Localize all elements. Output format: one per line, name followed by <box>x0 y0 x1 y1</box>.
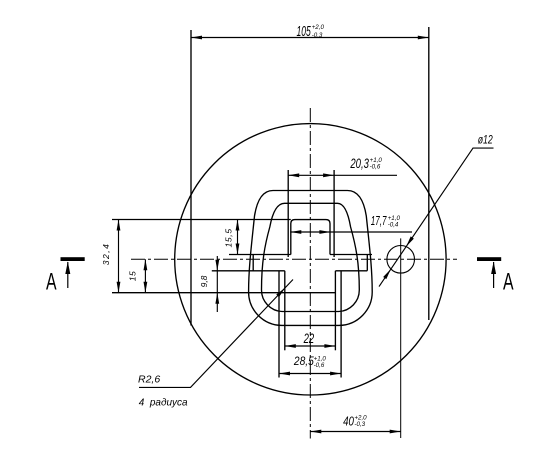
svg-text:32,4: 32,4 <box>101 244 111 265</box>
slot outer wall left (28.5) <box>278 271 280 378</box>
svg-text:20,3: 20,3 <box>350 157 370 172</box>
arrows 9.8 (outside) <box>215 260 219 271</box>
ext line 20.3 left <box>287 170 289 257</box>
arrows 32.4 <box>117 220 121 231</box>
dim line 105 <box>191 37 429 39</box>
dim line 9.8 <box>216 256 218 312</box>
cavity bottom long line <box>112 292 335 294</box>
contour A (outer profile) <box>249 191 373 326</box>
svg-text:-0,4: -0,4 <box>388 221 399 228</box>
dim line 15 <box>144 259 146 292</box>
dimension texts <box>101 23 493 429</box>
svg-text:22: 22 <box>303 332 315 347</box>
arrows 15.5 <box>236 220 240 231</box>
pocket bottom right <box>335 270 367 272</box>
hole vertical axis line <box>400 238 402 438</box>
arrows 20.3 <box>288 173 299 177</box>
dim line 15.5 <box>237 220 239 255</box>
leader R2.6 <box>139 280 293 388</box>
pocket bottom left + 9.8 ext <box>212 270 285 272</box>
cavity left pocket <box>229 255 291 271</box>
dim line 40 <box>310 431 400 433</box>
svg-text:A: A <box>503 269 514 295</box>
section marker left <box>46 257 85 295</box>
svg-text:28,5: 28,5 <box>293 355 315 368</box>
dim line 28.5 <box>279 373 341 375</box>
svg-text:R2,6: R2,6 <box>138 374 160 386</box>
svg-text:17,7: 17,7 <box>371 214 387 228</box>
top reference line (32.4/15.5) <box>112 219 291 221</box>
slot inner wall left (22) <box>284 271 286 351</box>
svg-text:105: 105 <box>297 23 311 40</box>
leader ø12 <box>379 148 494 287</box>
arrows ø12 leader <box>405 236 414 247</box>
arrows 15 <box>144 259 148 270</box>
svg-text:A: A <box>46 269 57 295</box>
dim line 22 <box>285 345 336 347</box>
hole circle ø12 <box>387 245 415 273</box>
dim line 20.3 <box>288 174 397 176</box>
arrow R2.6 leader <box>276 286 286 297</box>
vertical centerline <box>309 108 311 439</box>
svg-text:ø12: ø12 <box>478 133 493 147</box>
svg-text:15: 15 <box>127 271 137 281</box>
svg-text:-0,3: -0,3 <box>312 32 323 39</box>
svg-text:4 радиуса: 4 радиуса <box>139 397 188 408</box>
svg-text:15,5: 15,5 <box>223 229 233 248</box>
cavity top edge <box>291 220 330 255</box>
slot outer wall right (28.5) <box>340 271 342 378</box>
dim line 17.7 <box>290 231 412 233</box>
arrows 28.5 <box>279 372 290 376</box>
ext line 105 right <box>428 27 430 320</box>
arrows 22 <box>285 344 296 348</box>
dim line 32.4 <box>118 220 120 293</box>
horizontal centerline <box>131 258 457 260</box>
svg-text:-0,3: -0,3 <box>354 421 365 428</box>
arrows 17.7 <box>290 230 301 234</box>
svg-text:-0,6: -0,6 <box>370 164 381 171</box>
slot inner wall right (22) <box>334 271 336 351</box>
contour B (middle profile) <box>262 203 360 311</box>
arrows 40 <box>310 430 321 434</box>
arrows 105 <box>191 36 202 40</box>
section marker right <box>477 257 514 295</box>
ext line 105 left <box>190 30 192 326</box>
cavity right pocket <box>330 255 372 271</box>
svg-text:-0,6: -0,6 <box>314 362 325 369</box>
svg-text:+2,0: +2,0 <box>312 24 325 31</box>
svg-text:9,8: 9,8 <box>199 275 209 287</box>
big circle (part outline) <box>175 124 446 395</box>
ext line 20.3 right <box>333 170 335 257</box>
svg-text:40: 40 <box>343 414 354 429</box>
